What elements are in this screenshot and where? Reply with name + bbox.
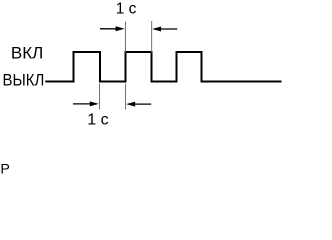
- svg-text:1 с: 1 с: [116, 0, 137, 17]
- svg-text:ВЫКЛ: ВЫКЛ: [3, 71, 45, 90]
- svg-text:Р: Р: [0, 162, 9, 175]
- svg-text:1 с: 1 с: [87, 112, 108, 129]
- svg-text:ВКЛ: ВКЛ: [11, 44, 43, 63]
